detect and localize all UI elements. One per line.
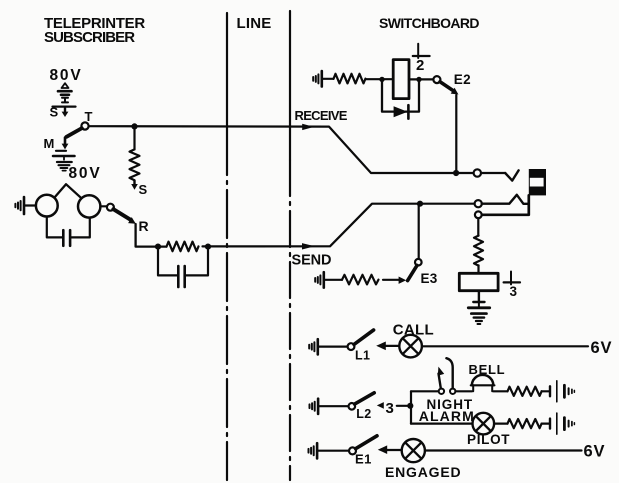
switch arm L1 [354, 330, 374, 344]
ground (E3) [315, 275, 320, 284]
node junction (top line / S resistor branch) [131, 123, 137, 129]
svg-text:S: S [50, 105, 59, 120]
jack spring V (row A) [505, 170, 518, 180]
wire ground to L1 [318, 346, 348, 348]
svg-text:RECEIVE: RECEIVE [295, 108, 348, 123]
contact E3 pivot [415, 259, 422, 266]
resistor (E3 branch) [342, 275, 379, 285]
svg-text:6V: 6V [591, 339, 613, 357]
wire E2 down to jack row A [455, 95, 457, 173]
arrow (L2 lead) [377, 402, 384, 409]
wire row A circle to V spring [481, 172, 505, 174]
svg-text:SUBSCRIBER: SUBSCRIBER [44, 29, 135, 46]
svg-text:2: 2 [416, 57, 424, 74]
svg-text:SWITCHBOARD: SWITCHBOARD [379, 15, 479, 31]
contact S (line relay armature, arrow) [133, 181, 135, 185]
rectifier loop (across relay 2 coil) [382, 79, 419, 111]
battery (bell branch) [549, 386, 551, 396]
svg-text:SEND: SEND [292, 252, 332, 268]
rectifier (metal diode) [394, 106, 408, 117]
winding mark 1/2 (relay 2) [417, 44, 419, 58]
resistor (bell branch) [508, 387, 542, 396]
night alarm switch arm (with arrow) [439, 374, 441, 389]
wire ground to E1 [317, 450, 349, 452]
wire resistor to relay 3 [477, 265, 479, 273]
arrow (E1 lamp lead) [378, 445, 387, 454]
line boundary left (chain line) [226, 13, 228, 127]
svg-text:R: R [139, 218, 149, 234]
node junction (send line left) [155, 244, 161, 250]
contact circle row A [474, 169, 481, 176]
svg-text:3: 3 [386, 400, 394, 417]
contact M (armature arrow + bar) [64, 138, 67, 145]
ground (E1 row) [309, 446, 314, 455]
RECEIVE arrow [302, 124, 314, 130]
contact R pivot [107, 204, 114, 211]
node junction (night alarm box) [407, 403, 413, 409]
svg-text:E1: E1 [355, 451, 372, 466]
svg-text:BELL: BELL [469, 362, 506, 377]
node junction (relay 2 right) [416, 77, 421, 82]
ground (relay 3, downward stack) [478, 291, 480, 302]
ground (L1 row) [309, 342, 314, 351]
battery 80V top [62, 83, 69, 88]
wire right coil to R pivot [100, 205, 107, 207]
node junction (row A / E2) [453, 170, 459, 176]
resistor (send line, parallel with C2) [167, 242, 199, 252]
battery 80V lower (stack) [53, 155, 75, 158]
lamp PILOT [473, 413, 495, 435]
wire resistor to battery (bell) [542, 390, 550, 392]
wire arrow to ENGAGED lamp [385, 449, 401, 451]
svg-text:80V: 80V [50, 67, 83, 84]
plug (jack plug body, black) [529, 169, 546, 195]
night alarm box left edge [410, 391, 412, 423]
svg-text:PILOT: PILOT [467, 432, 510, 447]
contact S (teleprinter, fixed bar + armature arrow) [53, 105, 76, 107]
svg-text:S: S [139, 182, 148, 197]
arrow (L1 lamp lead) [376, 342, 386, 351]
switch arm E3 [408, 265, 417, 280]
contact circle row B [475, 200, 482, 207]
svg-text:6V: 6V [584, 443, 606, 461]
node junction (row B / E3 branch) [417, 201, 423, 207]
contact E1 pivot [349, 447, 356, 454]
svg-text:ALARM: ALARM [419, 408, 475, 424]
wire 3 to night-alarm junction [397, 405, 408, 407]
node junction (send line right) [205, 244, 211, 250]
contact E2 pivot [433, 76, 440, 83]
capacitor C2 loop [158, 247, 177, 276]
wire CALL lamp to 6V [422, 345, 588, 347]
winding mark 3 (relay 3) [510, 272, 512, 285]
wire row C to plug sleeve [482, 195, 529, 214]
svg-text:3: 3 [510, 284, 518, 299]
ground (teleprinter magnets) [15, 201, 20, 210]
switch arm L2 [355, 393, 375, 404]
teleprinter magnet coil (right) [78, 195, 100, 217]
svg-text:80V: 80V [69, 165, 102, 182]
contact L1 pivot [348, 343, 355, 350]
lamp CALL [399, 335, 422, 358]
resistor (relay 2 input, zigzag) [334, 74, 366, 84]
relay coil 3 (rectangle) [459, 273, 498, 290]
capacitor C2 plates [177, 266, 180, 287]
wire: send line across LINE section, up to jack row B [203, 204, 475, 247]
night alarm box bottom wire [411, 423, 473, 425]
wire pilot to resistor [494, 423, 507, 425]
svg-text:L2: L2 [356, 407, 371, 421]
night alarm latch hook [446, 358, 452, 388]
wire resistor to E3 arm [383, 279, 399, 281]
jack spring inverted-V (row B) [482, 195, 529, 204]
wire bell to resistor [493, 390, 507, 392]
night alarm box top wire [411, 390, 438, 392]
wire ground to left magnet coil [24, 204, 36, 206]
battery (pilot branch) [549, 419, 551, 429]
resistor (relay 3 branch, vertical) [474, 236, 483, 266]
svg-text:E2: E2 [454, 72, 471, 87]
bell (dome) [472, 375, 493, 385]
resistor (pilot branch) [508, 419, 542, 428]
wire ground to E3 resistor [324, 279, 342, 281]
wire resistor to battery (pilot) [542, 423, 550, 425]
teleprinter magnet coil (left) [36, 195, 58, 217]
svg-text:ENGAGED: ENGAGED [385, 464, 461, 480]
svg-text:M: M [44, 136, 55, 151]
wire peak link between coils [55, 184, 82, 198]
wire R contact down to send line [136, 224, 167, 247]
SEND arrow [302, 243, 315, 249]
lamp ENGAGED [402, 439, 425, 462]
contact L2 pivot [349, 403, 356, 410]
wire ground to resistor [322, 78, 334, 80]
wire ENGAGED lamp to 6V [425, 449, 582, 451]
ground (L2 row) [310, 402, 315, 411]
svg-text:L1: L1 [355, 349, 370, 363]
resistor S (vertical zigzag) [130, 149, 140, 180]
line boundary right (chain line) [289, 11, 291, 160]
wire: junction down to resistor S [133, 126, 135, 149]
wire resistor to relay 2 coil [366, 78, 394, 80]
night alarm contact circles [439, 389, 444, 394]
wire: T contact to receive bend, across LINE, down to jack row A [89, 126, 474, 173]
switch arm T-M [67, 128, 82, 137]
switch arm E2 [440, 82, 453, 90]
svg-text:LINE: LINE [237, 15, 272, 32]
relay coil 2 (rectangle) [393, 60, 409, 99]
wire ground to L2 [318, 405, 348, 407]
wire arrow to CALL lamp [384, 345, 399, 347]
switch arm R [113, 209, 130, 220]
wire row C down to relay 3 resistor [477, 218, 479, 235]
wire row B junction down to contact E3 [418, 204, 420, 259]
contact circle row C [475, 211, 482, 218]
ground (relay 2 input) [313, 74, 318, 83]
switch arm E1 [356, 436, 377, 449]
svg-text:E3: E3 [421, 271, 438, 286]
capacitor C1 plates [62, 230, 65, 246]
capacitor C1 loop under coils [47, 217, 62, 238]
plug slot (white notch) [530, 178, 544, 187]
svg-text:CALL: CALL [393, 322, 434, 339]
wire contacts to bell [456, 390, 473, 392]
node junction (relay 2 left) [379, 77, 384, 82]
wire relay 2 to contact E2 [409, 78, 433, 80]
